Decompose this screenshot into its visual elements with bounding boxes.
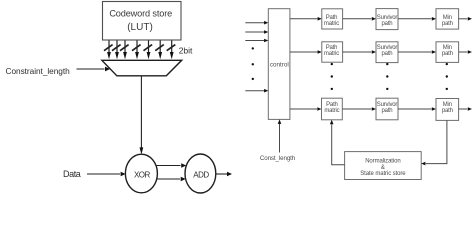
wire: ADD output	[216, 172, 232, 176]
svg-text:path: path	[442, 21, 453, 27]
wire: control to Path matric row3	[290, 107, 322, 111]
svg-text:Path: Path	[326, 102, 338, 108]
box: Normalization & State matric store	[345, 152, 422, 180]
svg-text:Survivor: Survivor	[377, 45, 398, 51]
svg-text:Codeword store: Codeword store	[109, 8, 172, 18]
box: Survivor path row3	[376, 98, 398, 120]
svg-text:State matric store: State matric store	[360, 171, 406, 177]
svg-text:matric: matric	[324, 51, 339, 57]
wire: bus arrow 4 from Codeword store to mux	[132, 41, 141, 60]
svg-text:Data: Data	[63, 169, 81, 179]
wire: Min path row2 output	[459, 50, 472, 54]
wire: Path matric row1 to Survivor path row1	[343, 17, 376, 21]
wire: input arrow 1 into control	[245, 21, 268, 25]
wire: input arrow 2 into control	[245, 30, 268, 34]
svg-text:path: path	[382, 51, 393, 57]
svg-text:Normalization: Normalization	[365, 158, 400, 164]
box: Survivor path row1	[376, 9, 398, 30]
wire: Normalization to Path matric row3 (feedback left)	[330, 120, 345, 165]
wire: Min path row3 down to Normalization (feedback right)	[421, 120, 447, 165]
svg-text:Path: Path	[326, 45, 338, 51]
wire: XOR to ADD upper	[156, 163, 186, 167]
svg-text:path: path	[382, 21, 393, 27]
wire: bus arrow 5 from Codeword store to mux	[144, 41, 153, 60]
svg-text:Min: Min	[443, 102, 452, 108]
box: Path matric row3	[322, 98, 343, 120]
wire: control to Path matric row1	[290, 17, 322, 21]
box: Path matric row2	[322, 42, 343, 62]
wire: bus arrow 3 from Codeword store to mux	[120, 41, 129, 60]
svg-text:2bit: 2bit	[179, 46, 193, 56]
wire: control to Path matric row2	[290, 50, 322, 54]
box: Survivor path row2	[376, 42, 398, 63]
svg-text:matric: matric	[324, 21, 339, 27]
svg-text:Constraint_length: Constraint_length	[6, 66, 71, 76]
svg-text:ADD: ADD	[193, 170, 209, 179]
wire: Survivor path row2 to Min path row2	[398, 50, 436, 54]
wire: Path matric row2 to Survivor path row2	[343, 50, 376, 54]
wire: Min path row1 output	[459, 17, 472, 21]
svg-text:path: path	[442, 108, 453, 114]
svg-text:matric: matric	[324, 108, 339, 114]
svg-text:path: path	[442, 51, 453, 57]
mux trapezoid	[102, 60, 182, 76]
wire: bus arrow 2 from Codeword store to mux	[112, 41, 121, 60]
wire: bus arrow 7 from Codeword store to mux	[167, 41, 176, 60]
svg-text:XOR: XOR	[134, 170, 151, 179]
wire: Constraint_length to mux	[77, 67, 111, 72]
svg-text:Const_length: Const_length	[260, 155, 296, 162]
svg-text:control: control	[270, 61, 289, 68]
ellipsis dots column under Min path	[446, 63, 448, 90]
wire: bus arrow 1 from Codeword store to mux	[104, 41, 113, 60]
box: Min path row1	[436, 9, 459, 29]
wire: Data to XOR	[87, 172, 126, 176]
box: Min path row3	[436, 99, 459, 121]
XOR node	[125, 154, 157, 193]
wire: Min path row3 output	[459, 107, 472, 111]
wire: Survivor path row3 to Min path row3	[398, 107, 436, 111]
wire: input arrow 3 into control	[245, 39, 268, 43]
svg-text:Min: Min	[443, 45, 452, 51]
svg-text:Survivor: Survivor	[377, 102, 398, 108]
svg-text:(LUT): (LUT)	[127, 22, 153, 33]
wire: Const_length up into control bottom	[278, 119, 282, 152]
wire: bus arrow 6 from Codeword store to mux	[155, 41, 164, 60]
control box	[268, 9, 290, 120]
ellipsis dots column under Path matric	[331, 63, 333, 90]
ellipsis dots left of control	[252, 47, 254, 80]
wire: input arrow 4 into control	[245, 89, 268, 93]
ellipsis dots column under Survivor path	[386, 63, 388, 90]
box: Codeword store (LUT) U1	[103, 2, 182, 41]
ADD node	[185, 154, 216, 193]
wire: Survivor path row1 to Min path row1	[398, 17, 436, 21]
svg-text:path: path	[382, 108, 393, 114]
box: Path matric row1	[322, 9, 343, 29]
wire: mux output down to XOR	[140, 76, 144, 155]
box: Min path row2	[436, 42, 459, 63]
wire: Path matric row3 to Survivor path row3	[342, 107, 376, 111]
wire: XOR to ADD lower	[157, 177, 186, 181]
